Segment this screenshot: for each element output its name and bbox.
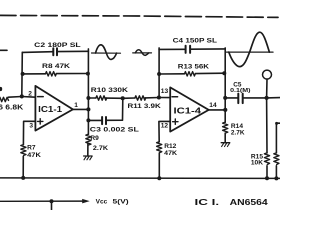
svg-text:2.7K: 2.7K [231, 130, 245, 137]
svg-text:R13 56K: R13 56K [178, 64, 209, 71]
svg-text:C2 180P SL: C2 180P SL [34, 42, 80, 49]
svg-text:Vcc: Vcc [96, 198, 108, 205]
svg-text:2.7K: 2.7K [93, 145, 108, 152]
svg-text:47K: 47K [27, 152, 41, 159]
svg-text:C4 150P SL: C4 150P SL [173, 38, 217, 45]
svg-text:5(V): 5(V) [113, 198, 129, 205]
svg-text:R7: R7 [27, 145, 36, 152]
svg-text:0.1(M): 0.1(M) [230, 88, 251, 94]
svg-text:IC1-4: IC1-4 [174, 106, 202, 115]
svg-text:1: 1 [74, 102, 78, 109]
svg-text:13: 13 [161, 88, 169, 95]
svg-text:12: 12 [161, 123, 169, 130]
svg-text:IC1-1: IC1-1 [38, 105, 63, 114]
svg-text:2: 2 [28, 91, 32, 98]
svg-text:10K: 10K [251, 160, 263, 167]
svg-text:R10 330K: R10 330K [91, 87, 128, 94]
svg-text:R9: R9 [90, 135, 99, 142]
svg-text:IC I.: IC I. [195, 197, 220, 207]
svg-text:3: 3 [29, 122, 33, 129]
svg-text:R11 3.9K: R11 3.9K [128, 103, 161, 110]
svg-text:6 6.8K: 6 6.8K [0, 104, 23, 111]
svg-text:47K: 47K [164, 150, 177, 157]
svg-text:14: 14 [209, 102, 217, 109]
svg-text:AN6564: AN6564 [230, 197, 269, 207]
svg-text:R8 47K: R8 47K [42, 63, 70, 70]
svg-text:C3 0.002 SL: C3 0.002 SL [90, 127, 139, 134]
